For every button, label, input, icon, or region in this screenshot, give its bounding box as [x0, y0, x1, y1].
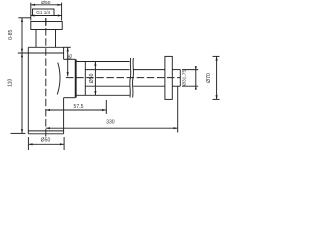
svg-text:Ø50: Ø50: [41, 138, 51, 144]
pipe bottom edge right section: [133, 85, 165, 87]
sleeve top edge: [75, 61, 129, 63]
thread dim right arrow: [58, 14, 62, 16]
dimension Ø70 top extension: [213, 55, 220, 57]
sleeve bottom edge: [75, 94, 129, 96]
svg-text:57.5: 57.5: [74, 104, 84, 110]
dimension 45 label: [68, 54, 74, 60]
dimension 0-85 label: [8, 30, 14, 40]
dimension 110 bottom arrow: [21, 129, 23, 133]
pipe break left curve: [129, 58, 132, 98]
trap body left edge: [27, 47, 29, 134]
dimension 57.5 right arrow: [102, 109, 106, 111]
outlet nut right face: [84, 62, 86, 96]
thread label box G1 1/4: [33, 9, 55, 16]
dimension 57.5 line: [46, 109, 107, 111]
svg-text:Ø50: Ø50: [89, 73, 95, 83]
dimension Ø31,75 top extension: [182, 69, 198, 71]
trap body bottom lip: [28, 130, 63, 132]
dimension 45 line: [67, 47, 69, 76]
cap centre tick: [45, 18, 47, 26]
trap body bottom: [28, 133, 63, 135]
extension line left of top dim: [30, 3, 32, 21]
dimension Ø70 bottom extension: [213, 98, 220, 100]
vertical centreline: [45, 18, 47, 137]
pipe bottom edge after flange: [172, 85, 180, 87]
dimension 0-85 top extension: [18, 17, 31, 19]
dimension 45 extension: [64, 46, 71, 48]
dimension 57.5 left arrow: [46, 109, 50, 111]
outlet stub bottom: [64, 97, 76, 99]
dimension 110 bottom extension: [11, 132, 26, 134]
cap flange: [31, 22, 62, 30]
pipe top edge after flange: [172, 69, 180, 71]
svg-text:G1 1/4: G1 1/4: [36, 10, 50, 15]
dimension Ø31,75 bottom arrow: [195, 86, 197, 89]
dimension 45 top arrow: [67, 47, 69, 51]
dimension Ø31,75 bottom extension: [182, 85, 198, 87]
svg-text:330: 330: [106, 119, 115, 125]
dimension Ø50 bottom right arrow: [60, 143, 64, 145]
thread dimension line: [31, 15, 62, 17]
svg-text:45: 45: [68, 54, 74, 60]
body outlet arc: [57, 63, 60, 95]
dimension Ø50 bottom left extension: [27, 137, 29, 150]
dimension 110 top arrow: [21, 53, 23, 57]
pipe break right curve: [132, 58, 135, 98]
dimension Ø70 label: [206, 73, 212, 83]
dimension Ø31,75 top arrow: [195, 66, 197, 69]
dimension 57.5 label: [74, 104, 84, 110]
thread dim left arrow: [31, 14, 35, 16]
dimension 110 line: [21, 53, 23, 133]
dimension 0-85 line: [21, 18, 23, 53]
dimension 330 extension: [177, 86, 179, 132]
dimension Ø50 top line: [31, 4, 62, 6]
wall flange: [165, 56, 172, 99]
dimension Ø50 bottom right extension: [63, 137, 65, 150]
body shoulder top: [28, 46, 63, 48]
tailpipe left edge: [35, 30, 37, 48]
pipe horizontal centreline: [66, 77, 180, 79]
dimension Ø50 sleeve top arrow: [94, 62, 96, 66]
extension line right of top dim: [61, 3, 63, 21]
dimension 0-85 top arrow: [21, 18, 23, 22]
dimension Ø70 top arrow: [216, 56, 218, 60]
dimension Ø70 bottom arrow: [216, 95, 218, 99]
dimension Ø50 sleeve label: [89, 73, 95, 83]
dimension Ø31,75 label: [182, 70, 188, 86]
outlet nut left face: [75, 59, 77, 97]
pipe top edge left section: [85, 69, 129, 71]
dimension 330 left arrow: [46, 127, 50, 129]
dimension Ø50 sleeve bottom arrow: [94, 91, 96, 95]
tailpipe right edge: [55, 30, 57, 48]
dimension Ø50 bottom line: [28, 143, 64, 145]
dimension Ø70 line: [216, 56, 218, 99]
svg-text:Ø70: Ø70: [206, 73, 212, 83]
svg-text:110: 110: [8, 79, 14, 87]
dimension 57.5 extension: [105, 100, 107, 114]
pipe bottom edge left section: [85, 85, 129, 87]
dimension 110 label: [8, 79, 14, 87]
shoulder bottom with left extension: [18, 52, 64, 54]
svg-text:Ø31,75: Ø31,75: [182, 70, 188, 86]
dimension Ø50 bottom left arrow: [28, 143, 32, 145]
trap body right edge upper: [63, 47, 65, 59]
dimension 330 right arrow: [174, 127, 178, 129]
dimension Ø31,75 line: [195, 66, 197, 89]
dimension 330 line: [46, 127, 178, 129]
dimension 330 label: [106, 119, 115, 125]
pipe top edge right section: [133, 69, 165, 71]
dimension 0-85 bottom arrow: [21, 49, 23, 53]
outlet stub top: [64, 58, 76, 60]
svg-text:0-85: 0-85: [8, 30, 14, 40]
dimension Ø50 sleeve line: [94, 62, 96, 96]
trap body right edge lower: [63, 98, 65, 134]
dimension 45 bottom arrow: [67, 72, 69, 76]
dimension Ø50 top left arrow: [31, 4, 35, 6]
dimension Ø50 bottom label: [41, 138, 51, 144]
pipe end cap: [179, 70, 181, 87]
dimension Ø50 top label: [41, 0, 51, 6]
dimension Ø50 top right arrow: [57, 4, 61, 6]
